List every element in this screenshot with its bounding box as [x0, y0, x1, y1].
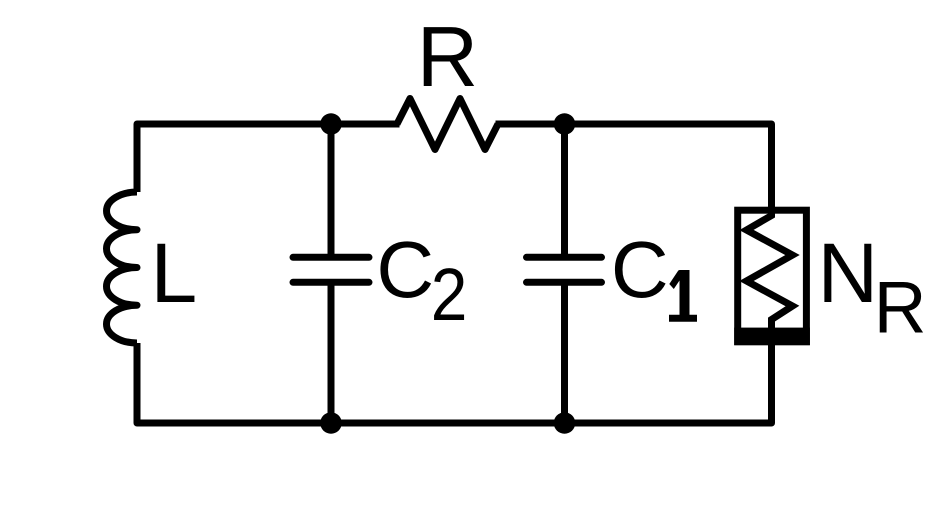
- capacitor C2 plates: [293, 257, 369, 282]
- capacitor C1 top lead: [561, 124, 568, 257]
- capacitor C2 bottom lead: [328, 282, 335, 423]
- wire resistor to node B: [496, 121, 565, 128]
- wire left-top (inductor top to node A): [137, 124, 331, 192]
- wire bottom middle (node A2 to node B2): [331, 420, 565, 427]
- node A junction dot: [320, 113, 342, 135]
- svg-text:R: R: [874, 268, 927, 349]
- node B junction dot: [554, 113, 576, 135]
- nonlinear resistor NR zigzag: [747, 210, 793, 330]
- nonlinear resistor NR box: [738, 210, 807, 342]
- svg-text:L: L: [151, 226, 198, 320]
- svg-text:C: C: [611, 225, 669, 314]
- svg-text:C: C: [376, 225, 434, 314]
- node A2 junction dot: [320, 412, 342, 434]
- label C1 subscript 1 glyph: [669, 270, 697, 322]
- resistor R: [397, 99, 498, 150]
- svg-text:2: 2: [431, 253, 468, 335]
- wire node A to resistor: [331, 121, 400, 128]
- svg-text:N: N: [818, 226, 879, 320]
- svg-text:R: R: [417, 10, 478, 105]
- node B2 junction dot: [554, 412, 576, 434]
- wire node B to NR top: [565, 124, 772, 210]
- nonlinear resistor NR bottom bar: [734, 328, 810, 346]
- wire bottom right (node B2 to NR bottom): [565, 345, 772, 423]
- capacitor C2 top lead: [328, 124, 335, 257]
- wire left-bottom (inductor bottom to node A2): [137, 343, 331, 423]
- capacitor C1 bottom lead: [561, 282, 568, 423]
- inductor L: [107, 192, 138, 343]
- capacitor C1 plates: [527, 257, 602, 282]
